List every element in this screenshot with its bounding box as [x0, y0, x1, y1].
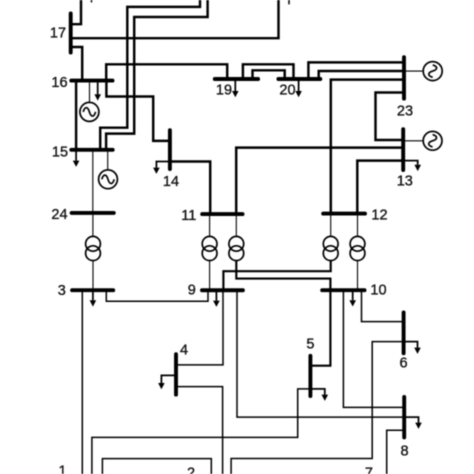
bus 17 — [69, 14, 73, 53]
bus 8 — [402, 397, 406, 437]
wire 15-21 circuit B (cut at top) — [106, 0, 208, 150]
load arrow bus 8 — [404, 417, 422, 429]
wire 8-10 — [343, 290, 404, 407]
svg-text:10: 10 — [370, 282, 386, 298]
svg-text:20: 20 — [279, 82, 295, 98]
top cut tick B — [288, 0, 290, 4]
generator G13 — [403, 131, 442, 150]
svg-text:16: 16 — [51, 75, 67, 91]
wire 11-13 — [236, 148, 403, 215]
svg-text:6: 6 — [399, 356, 407, 372]
wire 12-23 — [331, 80, 404, 214]
wire 11-10 via transformer — [236, 261, 330, 290]
svg-text:11: 11 — [181, 208, 196, 224]
load arrow bus 15 — [73, 150, 80, 167]
bus 15 — [71, 148, 112, 152]
wire 15-21 circuit A (cut at top) — [100, 0, 200, 150]
wire 1-2 — [102, 459, 211, 474]
wire 8-9 — [237, 290, 404, 417]
bus 24 — [72, 211, 114, 215]
wire 2-6 — [231, 342, 404, 474]
svg-text:5: 5 — [306, 337, 314, 353]
wire 20-23 circuit A — [308, 62, 404, 79]
wire 17-16 — [71, 47, 82, 81]
wire 1-3 — [81, 290, 83, 474]
transformer T12-9 — [323, 214, 338, 261]
svg-text:7: 7 — [365, 465, 373, 474]
wire 9-12 via transformer — [223, 261, 330, 290]
wire 15-16 — [75, 81, 77, 150]
bus 11 — [202, 212, 242, 216]
wire 16-19 — [106, 64, 227, 80]
wire 1-5 — [92, 389, 311, 474]
bus 14 — [168, 130, 172, 169]
svg-text:15: 15 — [52, 145, 68, 161]
svg-text:9: 9 — [188, 283, 196, 299]
load arrow bus 16 — [94, 81, 101, 101]
svg-text:2: 2 — [187, 465, 195, 474]
wire 4-9 — [176, 290, 223, 365]
wire 19-20 circuit outer — [243, 64, 294, 79]
generator G16 — [80, 81, 99, 122]
wire 16-14 — [106, 81, 169, 141]
wire 17-22 (long horizontal, riser cut at top) — [71, 0, 279, 38]
bus 3 — [72, 288, 113, 292]
wire 15-24 — [92, 150, 94, 213]
load arrow bus 14 — [153, 162, 170, 174]
wire 6-10 — [362, 290, 404, 321]
load arrow bus 6 — [404, 342, 421, 354]
bus 9 — [202, 288, 243, 292]
svg-text:3: 3 — [58, 283, 66, 299]
bus 20 — [278, 77, 320, 81]
load arrow bus 5 — [310, 389, 328, 401]
load arrow bus 19 — [232, 79, 239, 97]
bus 19 — [215, 77, 258, 81]
bus 16 — [71, 79, 112, 83]
svg-text:19: 19 — [216, 82, 232, 98]
wire 13-23 — [376, 93, 405, 141]
svg-text:8: 8 — [401, 444, 409, 460]
load arrow bus 4 — [158, 375, 176, 389]
svg-text:13: 13 — [397, 173, 413, 189]
svg-text:23: 23 — [397, 103, 413, 119]
wire 3-9 — [106, 290, 208, 301]
svg-text:1: 1 — [58, 464, 66, 474]
generator G15 — [99, 150, 118, 189]
bus 5 — [308, 356, 312, 396]
bus 23 — [402, 57, 406, 98]
generator G23 — [404, 62, 442, 81]
svg-text:12: 12 — [371, 207, 387, 223]
top cut tick A — [91, 0, 93, 2]
bus 6 — [402, 312, 406, 353]
transformer T11-10 — [229, 214, 244, 261]
svg-text:17: 17 — [50, 26, 66, 42]
wire 11-14 — [170, 162, 210, 215]
bus 13 — [401, 129, 405, 170]
wire 18-17 (cut at top) — [71, 0, 81, 24]
bus 10 — [322, 288, 364, 292]
svg-text:14: 14 — [163, 174, 179, 190]
svg-text:24: 24 — [51, 207, 67, 223]
bus 12 — [323, 212, 365, 216]
load arrow bus 9 — [213, 290, 220, 307]
wire 7-8 — [387, 430, 405, 474]
wire 20-23 circuit B — [319, 71, 404, 79]
transformer T11-9 — [202, 214, 217, 290]
wire 5-10 — [310, 290, 330, 366]
wire 12-13 — [357, 161, 403, 214]
svg-text:4: 4 — [180, 342, 188, 358]
transformer T12-10 — [350, 214, 365, 291]
load arrow bus 20 — [295, 79, 302, 97]
load arrow bus 13 — [403, 161, 421, 172]
wire 2-4 — [176, 387, 223, 474]
wire 19-20 circuit inner — [253, 70, 285, 79]
load arrow bus 3 — [90, 290, 97, 306]
transformer T24-3 — [86, 213, 101, 290]
bus 4 — [174, 354, 178, 394]
load arrow bus 10 — [349, 290, 356, 306]
